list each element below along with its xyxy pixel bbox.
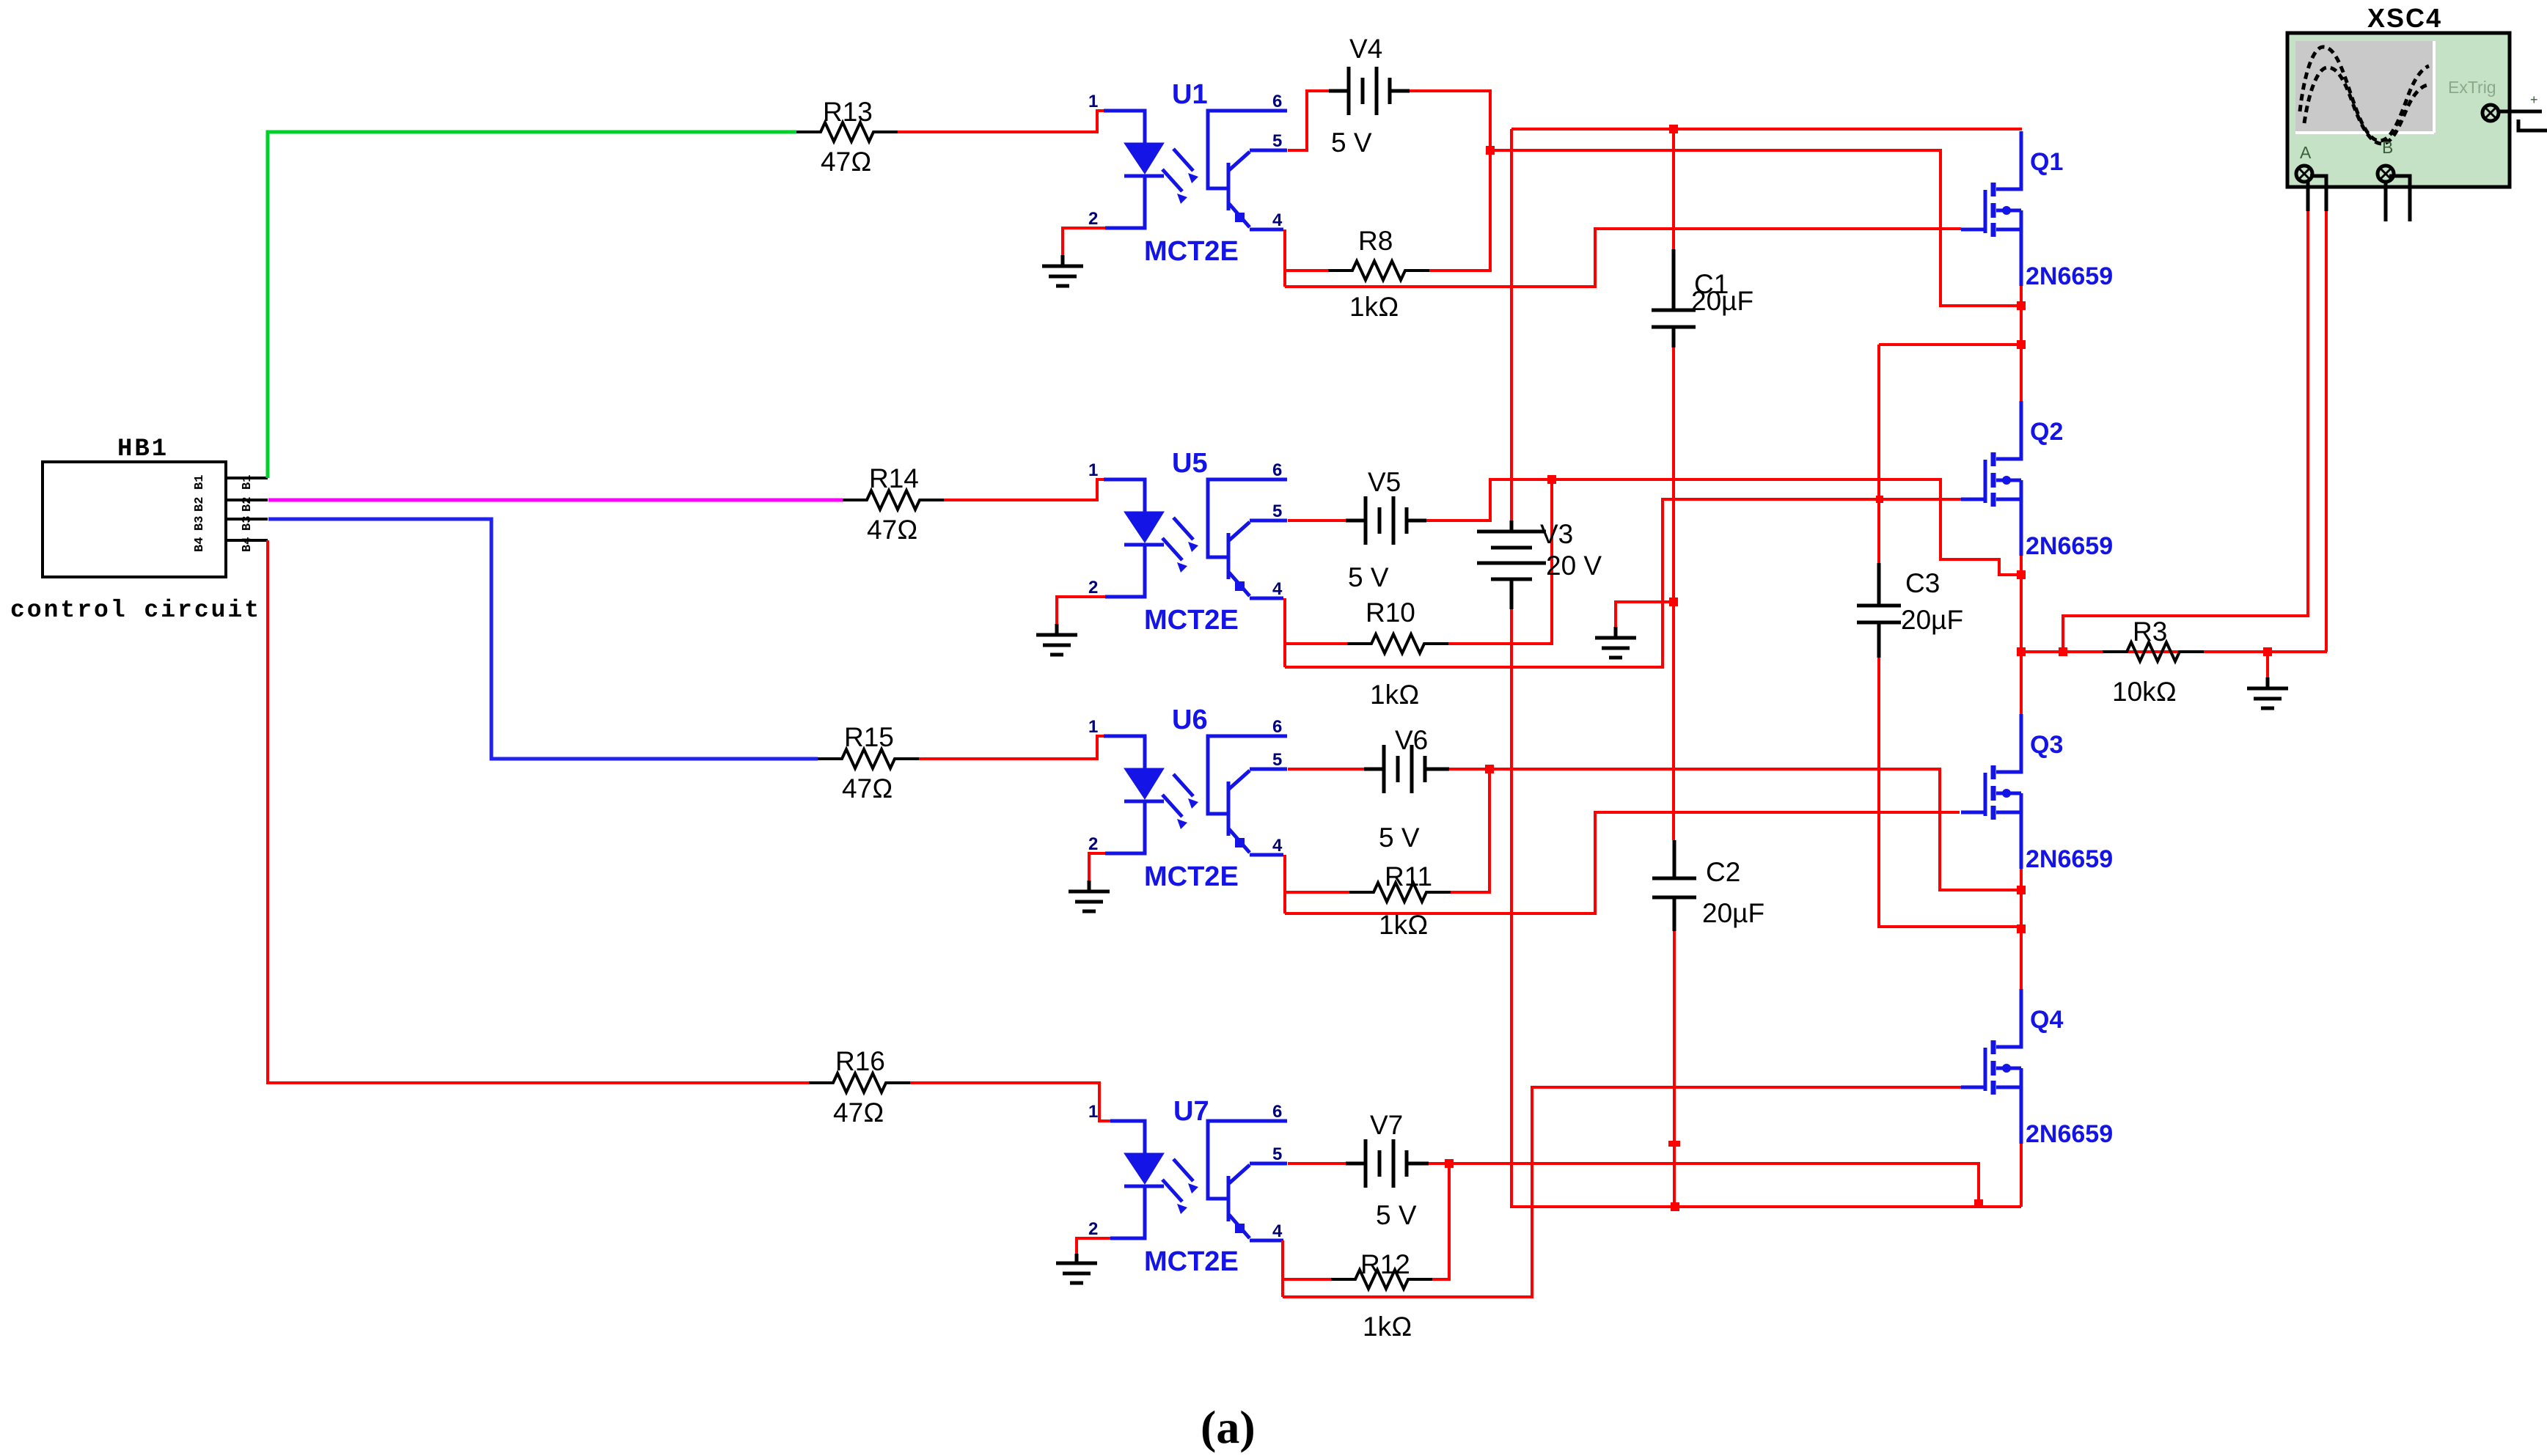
capacitor C1 20uF — [1652, 129, 1753, 348]
svg-text:B2: B2 — [193, 497, 207, 512]
HB1 pin B4 stub — [193, 537, 268, 552]
svg-text:10kΩ: 10kΩ — [2112, 677, 2177, 707]
svg-text:HB1: HB1 — [117, 435, 169, 463]
wire V3 - column to bottom rail — [1511, 609, 2021, 1207]
svg-text:20µF: 20µF — [1702, 898, 1764, 928]
wire V6 rail to R11 right — [1451, 769, 1489, 892]
transistor Q2 2N6659 — [1961, 401, 2113, 560]
svg-text:C3: C3 — [1905, 568, 1940, 598]
svg-text:B2: B2 — [241, 497, 254, 512]
junction (2563,681) — [1876, 496, 1883, 503]
junction (2757,417) — [2017, 301, 2026, 310]
wire red (HB1 B4 down to R16) — [268, 540, 809, 1083]
svg-text:5 V: 5 V — [1379, 823, 1420, 853]
wire emitter line to Q2 gate — [1285, 499, 1964, 667]
svg-text:2N6659: 2N6659 — [2026, 845, 2113, 873]
svg-text:1: 1 — [1088, 92, 1098, 111]
svg-text:6: 6 — [1272, 717, 1282, 737]
wire U5 pin2 to ground — [1057, 597, 1105, 624]
wire C3 bottom to Q4 drain — [1879, 658, 2021, 989]
svg-text:20µF: 20µF — [1901, 605, 1963, 635]
wire V7 - rail to Q4 source rail — [1429, 1163, 1979, 1204]
svg-text:R12: R12 — [1360, 1249, 1410, 1279]
wire U6 pin2 to ground — [1089, 853, 1105, 880]
junction (2757,1214) — [2017, 886, 2026, 894]
svg-text:control circuit: control circuit — [10, 597, 261, 624]
svg-text:20 V: 20 V — [1546, 551, 1602, 581]
svg-text:V6: V6 — [1395, 725, 1428, 755]
wire scope channel A return — [2325, 211, 2328, 652]
ground (U5 LED cathode) — [1036, 624, 1077, 655]
svg-text:(a): (a) — [1201, 1401, 1256, 1453]
svg-text:R3: R3 — [2133, 617, 2167, 647]
wire C3 top to Q1 source node — [1879, 343, 2022, 346]
svg-text:47Ω: 47Ω — [833, 1097, 884, 1128]
wire emitter line to Q3 gate — [1285, 812, 1960, 913]
svg-text:+: + — [2530, 92, 2538, 107]
wire V3 + column — [1510, 129, 1513, 521]
svg-text:47Ω: 47Ω — [867, 515, 918, 545]
wire V6 - rail to Q3 source — [1449, 769, 2022, 890]
svg-text:2N6659: 2N6659 — [2026, 262, 2113, 290]
wire Q2 source to output rail and Q3 drain — [2020, 556, 2023, 714]
svg-text:MCT2E: MCT2E — [1144, 605, 1239, 636]
svg-text:Q2: Q2 — [2030, 418, 2063, 446]
svg-text:MCT2E: MCT2E — [1144, 1246, 1239, 1277]
wire V5 rail to R10 right — [1448, 479, 1552, 644]
transistor Q1 2N6659 — [1961, 131, 2113, 290]
ground (output) — [2247, 677, 2288, 708]
svg-text:4: 4 — [1272, 836, 1283, 856]
svg-text:A: A — [2300, 143, 2312, 162]
svg-text:1: 1 — [1088, 1102, 1098, 1122]
wire emitter line to Q1 gate — [1285, 229, 1961, 287]
svg-text:5: 5 — [1272, 131, 1282, 151]
svg-text:2: 2 — [1088, 578, 1098, 598]
svg-text:B3: B3 — [241, 516, 254, 531]
wire C2 bottom to source rail — [1673, 931, 1676, 1204]
svg-text:1: 1 — [1088, 717, 1098, 737]
hierarchical block HB1 (control circuit) — [10, 435, 261, 624]
wire Q4 source to bottom rail — [2020, 1144, 2023, 1207]
junction (2116,654) — [1547, 475, 1556, 484]
svg-text:MCT2E: MCT2E — [1144, 861, 1239, 892]
wire R16 to U7 pin1 — [910, 1083, 1110, 1121]
svg-text:V4: V4 — [1349, 34, 1382, 64]
capacitor C2 20uF — [1652, 840, 1764, 931]
capacitor C3 20uF — [1857, 345, 1963, 658]
svg-text:B3: B3 — [193, 516, 207, 531]
svg-text:Q4: Q4 — [2030, 1006, 2063, 1034]
resistor R12 1kohm — [1331, 1249, 1432, 1342]
svg-text:U5: U5 — [1172, 448, 1208, 479]
wire V4 - to R8 right and node (2032,205) — [1410, 91, 1490, 271]
ground (mid rail) — [1595, 627, 1636, 658]
wire U7 pin5 to V7 + — [1288, 1162, 1346, 1165]
wire U7 pin2 to ground — [1077, 1238, 1110, 1254]
svg-text:V5: V5 — [1368, 467, 1401, 497]
svg-text:MCT2E: MCT2E — [1144, 236, 1239, 267]
wire U5 emitter to R10 left — [1285, 598, 1347, 667]
optocoupler U1 MCT2E — [1088, 79, 1287, 267]
svg-text:2N6659: 2N6659 — [2026, 532, 2113, 560]
junction (3092,889) — [2263, 647, 2272, 656]
svg-text:4: 4 — [1272, 1221, 1283, 1241]
svg-text:1: 1 — [1088, 460, 1098, 480]
wire U1 emitter to R8 left — [1285, 229, 1328, 287]
wire V4 - rail to Q1 source — [1490, 150, 2022, 306]
HB1 pin B2 stub — [193, 497, 268, 512]
junction (1976,1587) — [1445, 1159, 1454, 1168]
battery V6 5V — [1364, 725, 1449, 853]
svg-text:V3: V3 — [1540, 519, 1573, 549]
svg-text:1kΩ: 1kΩ — [1349, 292, 1399, 322]
svg-text:47Ω: 47Ω — [821, 147, 872, 177]
caption (a) — [1201, 1401, 1256, 1453]
svg-text:6: 6 — [1272, 92, 1282, 111]
resistor R15 47ohm — [818, 722, 919, 804]
svg-text:2: 2 — [1088, 209, 1098, 229]
wire scope channel A probe — [2063, 211, 2308, 652]
svg-text:R8: R8 — [1358, 226, 1393, 256]
svg-text:R11: R11 — [1385, 861, 1432, 891]
wire U7 emitter to R12 left — [1283, 1240, 1331, 1297]
resistor R14 47ohm — [843, 463, 944, 545]
junction (2757,470) — [2017, 340, 2026, 349]
junction (2756,889) — [2017, 647, 2026, 656]
svg-text:5: 5 — [1272, 501, 1282, 521]
wire emitter line to Q4 gate — [1283, 1087, 1961, 1297]
wire magenta (HB1 B2 to R14) — [268, 499, 843, 502]
svg-text:B1: B1 — [241, 475, 254, 490]
resistor R8 1kohm — [1328, 226, 1429, 322]
wire R14 to U5 pin1 — [944, 479, 1104, 500]
svg-text:47Ω: 47Ω — [842, 773, 893, 804]
svg-text:4: 4 — [1272, 579, 1283, 599]
svg-text:B4: B4 — [241, 537, 254, 552]
wire mid ground tap — [1616, 602, 1674, 627]
ground (U6 LED cathode) — [1069, 880, 1110, 911]
wire U1 pin2 to ground — [1063, 228, 1105, 255]
oscilloscope XSC4 — [2287, 3, 2547, 221]
svg-text:5 V: 5 V — [1331, 128, 1372, 158]
svg-text:R13: R13 — [823, 97, 873, 127]
wire output rail (Q2 source to scope) — [2021, 650, 2327, 653]
wire U1 pin5 to V4 + — [1288, 91, 1329, 150]
junction (2031,1049) — [1485, 765, 1494, 773]
svg-text:C2: C2 — [1706, 857, 1740, 887]
wire Q3 source to Q4 drain — [2020, 869, 2023, 989]
battery V3 20V — [1477, 519, 1602, 609]
wire R15 to U6 pin1 — [919, 736, 1104, 759]
svg-text:6: 6 — [1272, 1102, 1282, 1122]
svg-text:B: B — [2382, 138, 2393, 157]
svg-text:R10: R10 — [1366, 598, 1415, 628]
svg-text:20µF: 20µF — [1691, 286, 1753, 316]
wire green (HB1 B1 to R13) — [268, 132, 796, 478]
ground (U1 LED cathode) — [1042, 255, 1083, 286]
optocoupler U5 MCT2E — [1088, 448, 1287, 636]
wire R13 to U1 pin1 — [898, 111, 1104, 132]
wire U5 pin5 to V5 + — [1288, 519, 1346, 522]
junction (2698,1642) — [1974, 1199, 1983, 1208]
svg-text:Q1: Q1 — [2030, 148, 2063, 176]
svg-text:U7: U7 — [1173, 1096, 1209, 1127]
wire blue (HB1 B3 to R15) — [268, 519, 818, 759]
svg-text:R14: R14 — [869, 463, 919, 493]
HB1 pin B1 stub — [193, 475, 268, 490]
resistor R11 1kohm — [1349, 861, 1451, 940]
HB1 pin B3 stub — [193, 516, 268, 531]
svg-text:Q3: Q3 — [2030, 731, 2063, 759]
battery V5 5V — [1346, 467, 1426, 592]
wire Q1 source to Q2 drain — [2020, 286, 2023, 401]
svg-text:6: 6 — [1272, 460, 1282, 480]
wire V5 - rail to Q2 source — [1426, 479, 2021, 575]
ground (U7 LED cathode) — [1056, 1254, 1097, 1283]
resistor R13 47ohm — [796, 97, 898, 177]
svg-text:U6: U6 — [1172, 705, 1208, 735]
wire +20V rail to Q1 drain — [1511, 128, 2022, 130]
svg-text:2: 2 — [1088, 1219, 1098, 1239]
battery V7 5V — [1346, 1110, 1429, 1230]
svg-text:5: 5 — [1272, 750, 1282, 770]
junction (2756,1267) — [2017, 924, 2026, 933]
junction (2756,784) — [2017, 570, 2026, 579]
svg-text:5: 5 — [1272, 1144, 1282, 1164]
svg-text:2: 2 — [1088, 834, 1098, 854]
svg-text:R15: R15 — [844, 722, 894, 752]
svg-text:4: 4 — [1272, 210, 1283, 230]
svg-text:1kΩ: 1kΩ — [1363, 1312, 1412, 1342]
junction tick (2283,1561) — [1668, 1141, 1680, 1147]
resistor R16 47ohm — [809, 1046, 910, 1128]
wire C1 bottom to C2 top — [1672, 348, 1675, 840]
wire V7 rail to R12 right — [1432, 1163, 1449, 1279]
wire U6 emitter to R11 left — [1285, 855, 1349, 913]
svg-text:5 V: 5 V — [1376, 1200, 1417, 1230]
junction (2284,1646) — [1671, 1202, 1679, 1211]
svg-text:1kΩ: 1kΩ — [1370, 680, 1420, 710]
wire U6 pin5 to V6 + — [1288, 768, 1364, 771]
svg-text:ExTrig: ExTrig — [2448, 78, 2496, 97]
svg-text:2N6659: 2N6659 — [2026, 1120, 2113, 1148]
transistor Q4 2N6659 — [1961, 989, 2113, 1148]
optocoupler U7 MCT2E — [1088, 1096, 1287, 1277]
junction (2032,205) — [1486, 146, 1495, 155]
resistor R10 1kohm — [1347, 598, 1448, 710]
junction (2282,176) — [1669, 125, 1678, 133]
junction (2813,889) — [2059, 647, 2067, 656]
wire R3 right to ground — [2266, 652, 2269, 677]
optocoupler U6 MCT2E — [1088, 705, 1287, 892]
svg-text:5 V: 5 V — [1348, 562, 1389, 592]
resistor R3 10kohm — [2103, 617, 2204, 707]
svg-text:XSC4: XSC4 — [2367, 3, 2442, 33]
svg-text:B4: B4 — [193, 537, 207, 552]
svg-text:U1: U1 — [1172, 79, 1208, 110]
svg-text:B1: B1 — [193, 475, 207, 490]
transistor Q3 2N6659 — [1961, 714, 2113, 873]
svg-text:V7: V7 — [1370, 1110, 1403, 1140]
svg-text:R16: R16 — [835, 1046, 885, 1076]
battery V4 5V — [1329, 34, 1410, 158]
junction (2282,821) — [1669, 598, 1678, 606]
